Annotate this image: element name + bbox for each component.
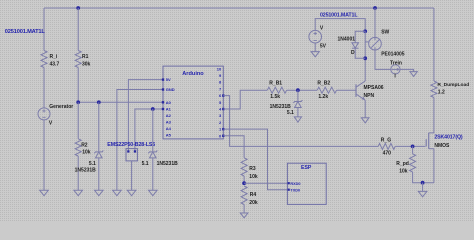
svg-text:NMOS: NMOS: [434, 143, 450, 149]
label R3 value: [249, 174, 258, 180]
label V: [320, 26, 324, 32]
ground encoder: [127, 190, 136, 195]
svg-text:R1: R1: [82, 54, 89, 60]
diode zener 1N5231B A0: [94, 151, 103, 158]
svg-text:NPN: NPN: [364, 93, 375, 99]
resistor R_DumpLoad: [431, 81, 437, 98]
node rail-R1 junction: [76, 6, 80, 10]
svg-text:470: 470: [383, 150, 392, 156]
pin Arduino GND: [162, 88, 164, 90]
svg-text:A0: A0: [166, 100, 172, 105]
svg-text:10: 10: [217, 66, 222, 71]
label 0251001.MAT1L top middle: [320, 12, 358, 18]
pin Arduino A1: [162, 108, 164, 110]
node source-ground junction: [421, 181, 425, 185]
resistor R3: [241, 158, 247, 176]
svg-text:PE014005: PE014005: [381, 51, 405, 57]
voltage source Generator: [38, 108, 50, 120]
label R_pd: [396, 161, 409, 167]
node gate junction: [411, 145, 415, 149]
Arduino box: [163, 66, 223, 139]
wire R_pd bottom: [413, 172, 434, 183]
pin Arduino 6 stub: [222, 94, 224, 96]
wire right rail: [433, 8, 435, 81]
ground NMOS source: [418, 191, 427, 196]
wire node to RXD0: [244, 182, 287, 184]
wire R_G to gate: [395, 145, 425, 147]
svg-text:5V: 5V: [320, 44, 327, 50]
label R1 value: [82, 61, 91, 67]
wire A1 row: [135, 109, 163, 152]
svg-text:Arduino: Arduino: [182, 71, 204, 77]
wire R4 to ground: [243, 205, 245, 214]
svg-text:10k: 10k: [399, 169, 408, 175]
label R2: [81, 143, 88, 149]
wire R_B2 to base: [337, 89, 357, 91]
label R_pd value: [399, 169, 408, 175]
label zener3 value 5.1: [287, 110, 294, 116]
wire SW top: [374, 8, 376, 38]
ground zener2: [149, 190, 158, 195]
label 0251001.MAT1L top left: [5, 29, 46, 35]
label Arduino pin 10: [217, 66, 222, 71]
svg-text:R_pd: R_pd: [396, 161, 409, 167]
label TXD0: [290, 188, 300, 192]
wire pin1 to TXD0: [223, 129, 287, 190]
svg-text:43.7: 43.7: [50, 61, 60, 67]
svg-text:1.2: 1.2: [438, 90, 445, 96]
svg-text:A2: A2: [166, 113, 172, 118]
wire R2 to ground: [77, 156, 79, 190]
ground emitter: [361, 118, 369, 123]
wire diode bottom stub: [355, 48, 365, 58]
pin Arduino 4 stub: [222, 108, 224, 110]
label zener2 value 5.1: [142, 161, 149, 167]
svg-text:R3: R3: [249, 166, 256, 172]
node A1-zener junction: [151, 107, 155, 111]
svg-text:0251001.MAT1L: 0251001.MAT1L: [320, 12, 358, 18]
ground Arduino GND: [113, 190, 122, 195]
svg-text:R_i: R_i: [50, 54, 58, 60]
label Arduino pin 6: [219, 93, 222, 98]
svg-text:1N5231B: 1N5231B: [157, 161, 179, 167]
label Arduino pin 8: [219, 80, 222, 85]
ground Generator: [40, 190, 49, 195]
label Arduino pin A2: [166, 113, 172, 118]
wire R_B1 to node: [287, 89, 318, 91]
svg-text:GND: GND: [166, 87, 175, 92]
label Arduino pin A1: [166, 107, 172, 112]
transistor Q1 MPSA06: [356, 81, 365, 100]
wire R2 top: [77, 102, 79, 139]
transistor M1 2SK4017 NMOS: [426, 133, 434, 149]
svg-text:1.2k: 1.2k: [318, 94, 328, 100]
label R_B1: [269, 81, 282, 87]
svg-text:30k: 30k: [82, 61, 91, 67]
resistor R4: [241, 186, 247, 205]
svg-text:SW: SW: [381, 30, 389, 36]
node base-zener junction: [296, 88, 300, 92]
svg-text:A3: A3: [166, 120, 172, 125]
wire pin6 to gate row: [223, 96, 378, 147]
node coil bottom junction: [363, 56, 367, 60]
resistor R1: [75, 51, 81, 68]
label Arduino pin 3: [219, 113, 222, 118]
resistor R_G: [378, 143, 395, 149]
label Arduino pin GND: [166, 87, 175, 92]
wire GND net: [117, 90, 163, 191]
voltage source V 5V: [309, 30, 322, 43]
label I: [394, 74, 396, 80]
ground zener3: [294, 117, 301, 122]
label Arduino pin 7: [219, 86, 222, 91]
wire ground stub: [422, 183, 424, 192]
label PE014005: [381, 51, 405, 57]
wire collector: [364, 58, 366, 81]
label R_i: [50, 54, 58, 60]
wire pin4 to R_B1: [223, 90, 267, 109]
ground zener1: [95, 190, 104, 195]
node R1-R2-A0 junction: [76, 100, 80, 104]
label Arduino pin 4: [219, 107, 222, 112]
svg-text:Generator: Generator: [49, 104, 73, 110]
wire R3 to node: [243, 176, 245, 183]
svg-text:2SK4017(Q): 2SK4017(Q): [434, 135, 462, 141]
diode zener 1N5231B A1: [148, 151, 157, 158]
diode D 1N4001: [352, 43, 359, 49]
svg-text:R_B2: R_B2: [317, 81, 330, 87]
wire zener2 to ground: [152, 158, 154, 190]
wire R1 to node A0: [77, 68, 79, 103]
pin ESP TXD0: [288, 189, 290, 191]
svg-text:Trein: Trein: [390, 61, 402, 67]
wire R_pd top: [412, 146, 414, 153]
svg-text:1N5231B: 1N5231B: [75, 168, 97, 174]
node divider junction: [242, 181, 246, 185]
wire V top: [315, 19, 365, 32]
resistor R_i: [41, 51, 47, 68]
svg-text:TXD0: TXD0: [290, 188, 300, 192]
label Arduino pin A5: [166, 132, 172, 137]
pin Arduino A0: [162, 101, 164, 103]
label R_DumpLoad: [437, 82, 469, 88]
svg-text:EMS22P50-B28-LS6: EMS22P50-B28-LS6: [107, 142, 155, 148]
resistor R_pd: [410, 154, 416, 172]
label 5V: [320, 44, 327, 50]
svg-text:ESP: ESP: [301, 165, 312, 171]
wire zener1 top: [98, 102, 100, 151]
label Arduino pin A4: [166, 126, 172, 131]
pin encoder 5V: [127, 150, 129, 152]
ground R2: [74, 190, 83, 195]
svg-text:RXD0: RXD0: [290, 182, 300, 186]
wire SW bottom: [375, 50, 391, 70]
wire zener3 to ground: [297, 108, 299, 117]
svg-text:A4: A4: [166, 126, 172, 131]
svg-text:5.1: 5.1: [287, 110, 294, 116]
wire emitter to ground: [364, 100, 366, 118]
node A0-zener junction: [97, 100, 101, 104]
pin Arduino 0 stub: [222, 135, 224, 137]
ground V source: [311, 52, 319, 57]
wire diode top stub: [355, 31, 365, 42]
wire encoder ground pin: [131, 161, 133, 190]
svg-text:5.1: 5.1: [142, 161, 149, 167]
label RXD0: [290, 182, 300, 186]
label Arduino pin 2: [219, 120, 222, 125]
svg-text:R_G: R_G: [381, 138, 391, 144]
label R2 value: [82, 150, 91, 156]
resistor R_B1: [267, 87, 286, 93]
svg-text:A5: A5: [166, 132, 172, 137]
wire pin0 to R3: [223, 136, 244, 158]
label SW: [381, 30, 389, 36]
svg-text:10k: 10k: [82, 150, 91, 156]
pin Arduino 1 stub: [222, 128, 224, 130]
label D: [351, 50, 355, 56]
wire A0 row: [78, 101, 163, 103]
svg-text:R_B1: R_B1: [269, 81, 282, 87]
label R_i value: [50, 61, 60, 67]
switch SW PE014005: [365, 37, 381, 50]
label NMOS: [434, 143, 450, 149]
svg-text:5.1: 5.1: [89, 161, 96, 167]
wire V to ground: [314, 43, 316, 52]
label R4 value: [249, 200, 258, 206]
diode zener 1N5231B base: [293, 100, 302, 107]
label MPSA06: [364, 85, 384, 91]
label Arduino pin 5V: [166, 77, 171, 82]
label R_G value: [383, 150, 392, 156]
resistor R_B2: [317, 87, 336, 93]
svg-text:5V: 5V: [166, 77, 171, 82]
svg-text:R2: R2: [81, 143, 88, 149]
pin Arduino 5V: [162, 78, 164, 80]
svg-text:D: D: [351, 50, 355, 56]
pin ESP RXD0: [288, 182, 290, 184]
label EMS22P50-B28-LS6: [107, 142, 155, 148]
label Generator V: [49, 121, 53, 127]
wire Trein to ground: [400, 69, 414, 71]
wire coil line: [364, 31, 366, 58]
label 1N4001: [337, 37, 355, 43]
wire zener3 top: [297, 90, 299, 101]
label zener1 name 1N5231B: [75, 168, 97, 174]
label R_DumpLoad value: [438, 90, 445, 96]
label Arduino: [182, 71, 204, 77]
label zener3 name 1N5231B: [270, 104, 292, 110]
svg-text:20k: 20k: [249, 200, 258, 206]
label Trein: [390, 61, 402, 67]
label Arduino pin A0: [166, 100, 172, 105]
svg-text:1.5k: 1.5k: [270, 94, 280, 100]
svg-text:R_DumpLoad: R_DumpLoad: [437, 82, 469, 88]
wire R_i to Generator: [43, 68, 45, 109]
pin encoder out: [134, 150, 136, 152]
label Arduino pin 1: [219, 127, 222, 132]
wire zener1 to ground: [98, 158, 100, 190]
label R_B1 value: [270, 94, 280, 100]
wire R_i top: [43, 8, 45, 51]
wire source: [433, 149, 435, 183]
label Generator: [49, 104, 73, 110]
wire R1 top: [77, 8, 79, 51]
label 2SK4017(Q): [434, 135, 462, 141]
label R1: [82, 54, 89, 60]
wire drain: [429, 98, 434, 133]
label NPN: [364, 93, 375, 99]
resistor R2: [75, 139, 81, 156]
svg-text:MPSA06: MPSA06: [364, 85, 384, 91]
label zener2 name 1N5231B: [157, 161, 179, 167]
svg-text:R4: R4: [250, 192, 257, 198]
svg-text:0251001.MAT1L: 0251001.MAT1L: [5, 29, 46, 35]
wire Generator to ground: [43, 120, 45, 191]
label ESP: [301, 165, 312, 171]
label Arduino pin 9: [219, 73, 222, 78]
label Arduino pin 5: [219, 100, 222, 105]
ground R4: [240, 213, 248, 218]
wire top rail: [44, 7, 434, 9]
svg-text:1N4001: 1N4001: [337, 37, 355, 43]
wire zener2 top: [152, 109, 154, 151]
current source Trein: [391, 65, 400, 74]
node coil top junction: [363, 29, 367, 33]
wire 5V net: [128, 80, 163, 152]
label R4: [250, 192, 257, 198]
ESP box: [287, 163, 326, 204]
node rail-SW junction: [373, 6, 377, 10]
label R3: [249, 166, 256, 172]
ground Trein: [410, 72, 417, 77]
label zener1 value 5.1: [89, 161, 96, 167]
label Arduino pin A3: [166, 120, 172, 125]
svg-text:A1: A1: [166, 107, 172, 112]
label R_B2 value: [318, 94, 328, 100]
label R_G: [381, 138, 391, 144]
label Arduino pin 0: [219, 133, 222, 138]
label R_B2: [317, 81, 330, 87]
encoder EMS22P50-B28-LS6 box: [126, 149, 137, 161]
svg-text:10k: 10k: [249, 174, 258, 180]
